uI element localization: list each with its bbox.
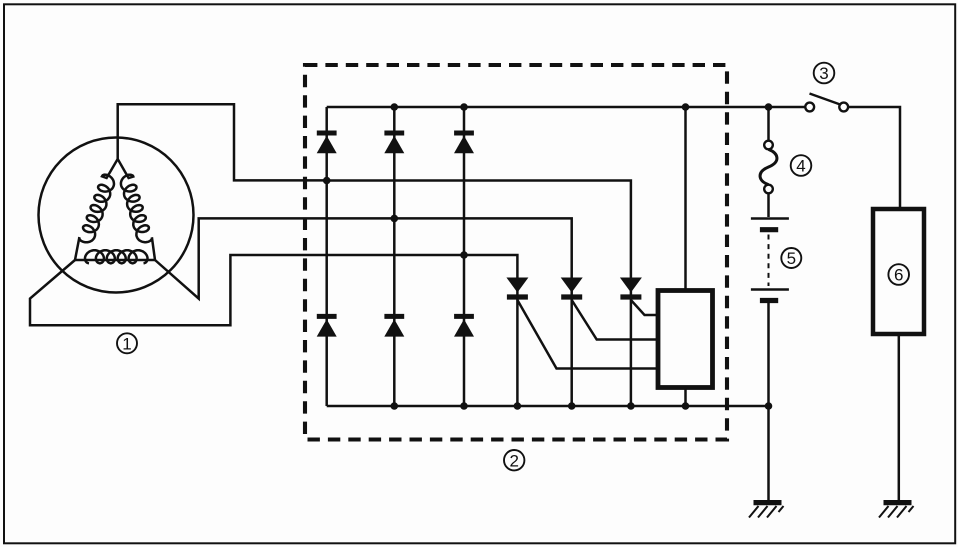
battery (5) internal dashed link xyxy=(768,235,770,287)
wire: bus to fusible link xyxy=(767,107,770,141)
battery (5) cell 1 negative plate xyxy=(760,227,778,232)
load box (6) xyxy=(873,209,924,334)
diode D3 (positive rectifier, phase C) xyxy=(454,131,474,136)
node: phase B / column 2 xyxy=(391,215,399,223)
svg-text:5: 5 xyxy=(787,249,796,268)
ground (battery) xyxy=(754,500,782,505)
wire: diode column 1 xyxy=(325,107,328,406)
wire: phase C extension to field diode column xyxy=(464,255,517,406)
battery (5) cell 2 positive plate xyxy=(751,288,789,291)
diode D4 (negative rectifier, phase A) xyxy=(317,314,337,319)
ignition switch (3) xyxy=(805,94,848,112)
node: phase A / column 1 xyxy=(323,177,331,185)
wire: battery to ground xyxy=(767,303,770,501)
node: ground bus / field column B xyxy=(568,402,576,410)
node: top bus / regulator feed xyxy=(682,103,690,111)
wire: field diode D9 to regulator xyxy=(631,300,658,315)
wire: B+ top bus to switch xyxy=(327,106,806,109)
label 4 (fusible link) xyxy=(791,155,812,176)
stator winding (bottom phase) baseline xyxy=(75,259,155,262)
wire: load to ground xyxy=(898,334,901,501)
node: ground bus / battery xyxy=(765,402,773,410)
node: ground bus / column 2 xyxy=(391,402,399,410)
fusible link (4) xyxy=(760,141,777,194)
voltage regulator box xyxy=(658,291,713,388)
wire: diode column 2 xyxy=(393,107,396,406)
diode D2 (positive rectifier, phase B) xyxy=(384,131,404,136)
svg-text:3: 3 xyxy=(819,64,828,83)
wire: field diode D7 to regulator xyxy=(517,300,658,369)
diode D6 (negative rectifier, phase C) xyxy=(454,314,474,319)
node: top bus / column 3 xyxy=(460,103,468,111)
wire: diode column 3 xyxy=(463,107,466,406)
battery (5) cell 1 positive plate xyxy=(751,217,789,220)
diode D8 (field diode, phase B) xyxy=(561,278,583,293)
wire: phase B alternator right to rectifier input xyxy=(155,218,394,298)
svg-text:1: 1 xyxy=(122,335,131,354)
diode D9 (field diode, phase A) xyxy=(620,278,642,293)
rectifier assembly dashed box (2) xyxy=(305,65,727,440)
wire: switch to load corner xyxy=(848,107,900,209)
ground (load) xyxy=(884,500,912,505)
wire: phase B extension to field diode column xyxy=(394,218,571,406)
wire: regulator top feed xyxy=(684,107,687,291)
label 2 (rectifier assembly) xyxy=(504,450,524,470)
label 5 (battery) xyxy=(781,248,801,268)
wire: regulator bottom to ground bus xyxy=(684,386,687,406)
node: ground bus / field column C xyxy=(627,402,635,410)
wire: field diode D8 to regulator xyxy=(572,300,658,340)
wire: phase C alternator left to rectifier input xyxy=(30,255,464,325)
svg-text:6: 6 xyxy=(894,266,903,285)
wire: phase A alternator top to rectifier input xyxy=(118,104,327,180)
label 1 (alternator) xyxy=(117,333,137,353)
stator winding (right phase) xyxy=(118,159,155,260)
battery (5) cell 2 negative plate xyxy=(760,298,778,303)
wire: phase A extension to field diode column xyxy=(327,181,631,407)
diode D7 (field diode, phase C) xyxy=(506,278,528,293)
alternator (1) housing circle xyxy=(39,138,194,293)
label 3 (switch) xyxy=(814,63,835,84)
node: ground bus / regulator xyxy=(682,402,690,410)
node: ground bus / column 3 xyxy=(460,402,468,410)
node: phase C / column 3 xyxy=(460,251,468,259)
diode D5 (negative rectifier, phase B) xyxy=(384,314,404,319)
label 6 (load) xyxy=(888,264,909,285)
diode D1 (positive rectifier, phase A) xyxy=(317,131,337,136)
stator winding (bottom phase) coil xyxy=(85,250,148,263)
wire: fusible link to battery xyxy=(767,193,770,217)
svg-text:2: 2 xyxy=(509,451,518,470)
wire: bottom ground bus xyxy=(327,405,769,408)
node: top bus / column 2 xyxy=(391,103,399,111)
node: top bus / battery branch xyxy=(765,103,773,111)
stator winding (left phase) xyxy=(75,159,118,260)
node: ground bus / field column A xyxy=(514,402,522,410)
svg-text:4: 4 xyxy=(796,157,805,176)
